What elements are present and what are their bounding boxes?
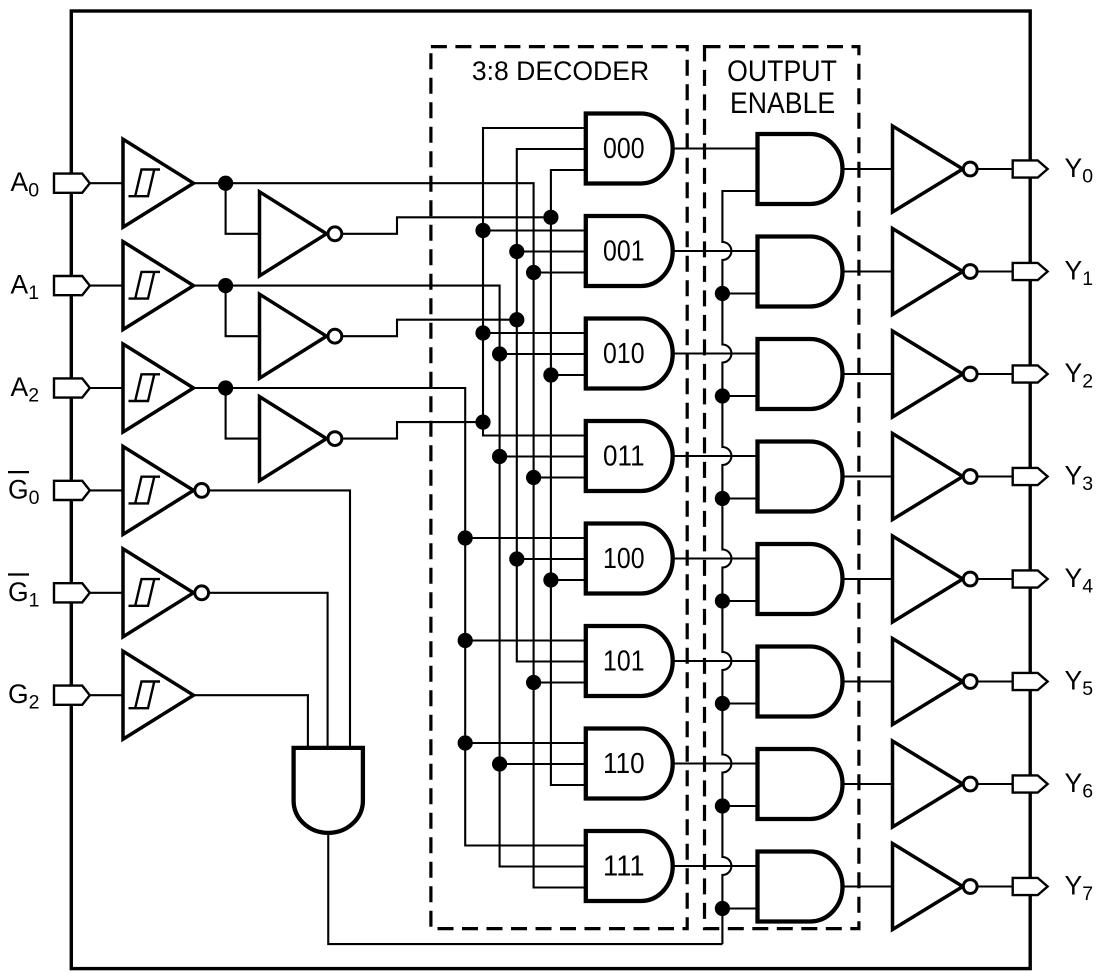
AND gate decoder 001 (586, 216, 673, 286)
AND gate decoder 011 (586, 421, 673, 491)
label A1 (11, 270, 40, 305)
wire inverter Y5 to output pin (978, 680, 1013, 682)
input pin G0 (54, 481, 90, 500)
wire A2 stub to gate 110 in1 (465, 742, 586, 744)
output pin Y3 (1013, 468, 1048, 485)
AND gate decoder 111 (586, 831, 673, 901)
wire inverter Y7 to output pin (978, 885, 1013, 887)
junction enable at OE gate 4 (715, 593, 730, 608)
AND gate output enable 7 (758, 852, 843, 922)
wire OE gate 4 output to inverter Y4 (843, 578, 893, 580)
svg-text:110: 110 (603, 748, 645, 780)
schmitt buffer A2 (123, 344, 194, 432)
inverter output Y4 (893, 536, 978, 622)
AND gate decoder 110 (586, 729, 673, 799)
label G2 (8, 679, 39, 714)
junction A2 at gate 100 in1 (458, 530, 473, 545)
schmitt buffer A1 (123, 242, 194, 330)
dashed box 3:8 decoder (431, 47, 687, 929)
wire enable stub to OE gate 4 in2 (722, 600, 757, 602)
AND gate decoder 000 (586, 114, 673, 184)
wire enable stub to OE gate 3 in2 (722, 497, 757, 499)
svg-text:111: 111 (603, 851, 645, 883)
junction A1 at gate 110 in2 (492, 756, 507, 771)
wire OE gate 3 output to inverter Y3 (843, 475, 893, 477)
inverter output Y6 (893, 741, 978, 827)
wire G2 pin to buffer (90, 694, 123, 696)
schmitt buffer G1 (123, 549, 209, 637)
junction enable at OE gate 2 (715, 388, 730, 403)
wire A0c stub to gate 100 in3 (551, 579, 586, 581)
junction A0c at gate 010 in3 (543, 367, 558, 382)
dashed box output enable (705, 47, 859, 929)
wire enable stub to OE gate 1 in2 (722, 292, 757, 294)
wire A0 stub to gate 011 in3 (534, 476, 586, 478)
junction A0 buffer output (218, 176, 233, 191)
wire bus A2 complement vertical x=483 (gate 000 in1 to gate 011 in1) (483, 128, 586, 436)
wire A1 stub to gate 110 in2 (500, 763, 586, 765)
AND gate output enable 4 (758, 544, 843, 614)
AND gate decoder 101 (586, 626, 673, 696)
svg-text:000: 000 (603, 133, 645, 165)
junction enable at OE gate 7 (715, 901, 730, 916)
wire A2 stub to gate 101 in1 (465, 639, 586, 641)
output pin Y7 (1013, 878, 1048, 895)
wire A0 branch to inverter (226, 183, 260, 234)
AND gate output enable 1 (758, 237, 843, 307)
junction A0 at gate 011 in3 (526, 470, 541, 485)
inverter output Y5 (893, 639, 978, 725)
input pin G2 (54, 686, 90, 705)
svg-text:ENABLE: ENABLE (730, 87, 835, 120)
wire inverter Y4 to output pin (978, 578, 1013, 580)
junction A2 at gate 110 in1 (458, 735, 473, 750)
inverter A2 complement (260, 397, 342, 481)
junction enable at OE gate 6 (715, 798, 730, 813)
wire enable AND output route along bottom (328, 833, 722, 944)
AND gate output enable 2 (758, 339, 843, 409)
wire A0 pin to buffer (90, 182, 123, 184)
AND gate output enable 3 (758, 442, 843, 512)
wire A2c stub to gate 010 in1 (483, 332, 586, 334)
inverter output Y0 (893, 126, 978, 212)
junction A2c at gate 001 in1 (475, 223, 490, 238)
wire A0 stub to gate 101 in3 (534, 681, 586, 683)
wire inverter Y0 to output pin (978, 168, 1013, 170)
svg-text:010: 010 (603, 338, 645, 370)
schmitt buffer A0 (123, 139, 194, 227)
wire net G0 to enable AND (209, 490, 350, 748)
wire decoder 101 output to OE gate 5 (673, 660, 758, 662)
wire net G2 to enable AND (194, 695, 308, 748)
wire net A1 complement to bus x=516.8 (343, 320, 517, 337)
svg-text:OUTPUT: OUTPUT (727, 55, 837, 88)
wire decoder 111 output to OE gate 7 (673, 865, 758, 867)
output pin Y4 (1013, 570, 1048, 587)
wire bus A0 complement vertical x=550.9 (gate 000 in3 to gate 110 in3) (551, 170, 586, 785)
AND gate decoder 010 (586, 319, 673, 389)
input pin A2 (54, 378, 90, 397)
junction A2 complement source on bus (475, 415, 490, 430)
junction A1 at gate 011 in2 (492, 449, 507, 464)
junction A1 at gate 010 in2 (492, 346, 507, 361)
wire OE gate 7 output to inverter Y7 (843, 885, 893, 887)
junction A1 buffer output (218, 278, 233, 293)
inverter output Y7 (893, 844, 978, 930)
junction A0 complement source on bus (543, 210, 558, 225)
wire G1 pin to buffer (90, 592, 123, 594)
junction A0 at gate 001 in3 (526, 265, 541, 280)
schmitt buffer G0 (123, 446, 209, 534)
schmitt buffer G2 (123, 651, 194, 739)
label A0 (11, 167, 40, 202)
wire A2 stub to gate 100 in1 (465, 537, 586, 539)
wire A1 pin to buffer (90, 285, 123, 287)
input pin A1 (54, 276, 90, 295)
wire inverter Y6 to output pin (978, 783, 1013, 785)
junction A0c at gate 100 in3 (543, 572, 558, 587)
junction A2c at gate 010 in1 (475, 325, 490, 340)
wire net G1 to enable AND (209, 593, 328, 748)
inverter output Y3 (893, 434, 978, 520)
wire net A1 true (buffer out, vertical bus x=499.6, to gate 111 in2) (194, 286, 586, 867)
wire inverter Y1 to output pin (978, 270, 1013, 272)
wire A2 branch to inverter (226, 388, 260, 439)
wire decoder 001 output to OE gate 1 (673, 250, 758, 252)
AND gate output enable 0 (758, 134, 843, 204)
wire OE gate 0 output to inverter Y0 (843, 168, 893, 170)
inverter A0 complement (260, 192, 342, 276)
wire A1 stub to gate 010 in2 (500, 353, 586, 355)
inverter output Y1 (893, 229, 978, 315)
junction A1 complement source on bus (509, 312, 524, 327)
wire decoder 100 output to OE gate 4 (673, 557, 758, 559)
wire OE gate 1 output to inverter Y1 (843, 270, 893, 272)
input pin A0 (54, 174, 90, 193)
wire inverter Y2 to output pin (978, 373, 1013, 375)
wire OE gate 2 output to inverter Y2 (843, 373, 893, 375)
wire A2 pin to buffer (90, 387, 123, 389)
wire A1c stub to gate 001 in2 (517, 250, 586, 252)
junction enable at OE gate 5 (715, 696, 730, 711)
junction A0 at gate 101 in3 (526, 675, 541, 690)
wire enable vertical x=722.4 with hops over decoder outputs (722, 191, 757, 944)
output pin Y6 (1013, 775, 1048, 792)
wire A1c stub to gate 100 in2 (517, 558, 586, 560)
label A2 (11, 372, 40, 407)
wire net A2 complement to bus x=483 (343, 422, 484, 439)
wire decoder 011 output to OE gate 3 (673, 455, 758, 457)
wire decoder 010 output to OE gate 2 (673, 352, 758, 354)
junction enable at OE gate 3 (715, 491, 730, 506)
wire inverter Y3 to output pin (978, 475, 1013, 477)
AND gate enable (3-input, pointing down) (294, 748, 363, 833)
svg-text:3:8 DECODER: 3:8 DECODER (472, 56, 649, 86)
AND gate output enable 5 (758, 647, 843, 717)
junction A1c at gate 100 in2 (509, 551, 524, 566)
wire OE gate 5 output to inverter Y5 (843, 680, 893, 682)
wire enable stub to OE gate 7 in2 (722, 907, 757, 909)
junction A1c at gate 001 in2 (509, 244, 524, 259)
wire enable stub to OE gate 6 in2 (722, 805, 757, 807)
junction A2 buffer output (218, 380, 233, 395)
junction A2 at gate 101 in1 (458, 633, 473, 648)
svg-text:001: 001 (603, 236, 645, 268)
wire bus A1 complement vertical x=516.8 (gate 000 in2 to gate 101 in2) (517, 149, 586, 662)
svg-text:100: 100 (603, 543, 645, 575)
output pin Y0 (1013, 160, 1048, 177)
output pin Y1 (1013, 263, 1048, 280)
output pin Y5 (1013, 673, 1048, 690)
inverter A1 complement (260, 294, 342, 378)
wire OE gate 6 output to inverter Y6 (843, 783, 893, 785)
wire net A0 complement to bus x=550.9 (343, 217, 551, 234)
wire A2c stub to gate 001 in1 (483, 229, 586, 231)
AND gate decoder 100 (586, 524, 673, 594)
wire net A0 true (buffer out, vertical bus x=533.6, to gate 111 in3) (194, 183, 586, 887)
inverter output Y2 (893, 331, 978, 417)
junction enable at OE gate 1 (715, 286, 730, 301)
wire A1 stub to gate 011 in2 (500, 455, 586, 457)
wire decoder 110 output to OE gate 6 (673, 762, 758, 764)
AND gate output enable 6 (758, 749, 843, 819)
wire G0 pin to buffer (90, 489, 123, 491)
svg-text:011: 011 (603, 441, 645, 473)
label G0 (8, 472, 40, 509)
wire enable stub to OE gate 5 in2 (722, 702, 757, 704)
wire A0 stub to gate 001 in3 (534, 271, 586, 273)
output pin Y2 (1013, 365, 1048, 382)
label G1 (8, 575, 39, 612)
svg-text:101: 101 (603, 646, 645, 678)
wire A0c stub to gate 010 in3 (551, 374, 586, 376)
wire net A2 true (buffer out, vertical bus x=465.2, to gate 111 in1) (194, 388, 586, 846)
input pin G1 (54, 583, 90, 602)
wire enable stub to OE gate 2 in2 (722, 395, 757, 397)
wire decoder 000 output to OE gate 0 (673, 147, 758, 149)
wire A1 branch to inverter (226, 286, 260, 337)
